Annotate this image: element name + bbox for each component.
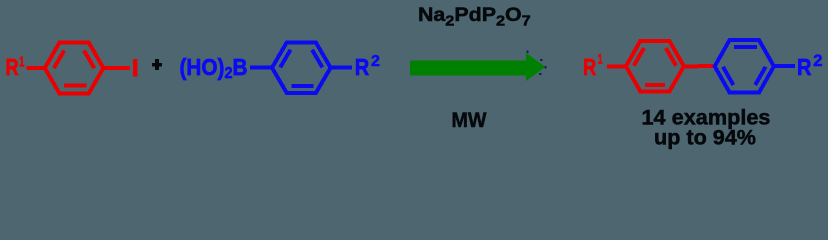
svg-text:R: R	[583, 54, 596, 80]
svg-text:2: 2	[813, 52, 822, 70]
svg-text:1: 1	[598, 50, 603, 66]
svg-text:(HO)2B: (HO)2B	[180, 54, 248, 82]
svg-text:2: 2	[371, 53, 380, 70]
svg-text:MW: MW	[452, 109, 487, 132]
svg-text:up to 94%: up to 94%	[654, 126, 756, 150]
svg-text:1: 1	[19, 55, 25, 71]
svg-text:R: R	[6, 54, 19, 80]
svg-text:R: R	[797, 54, 812, 80]
svg-text:R: R	[355, 54, 370, 80]
